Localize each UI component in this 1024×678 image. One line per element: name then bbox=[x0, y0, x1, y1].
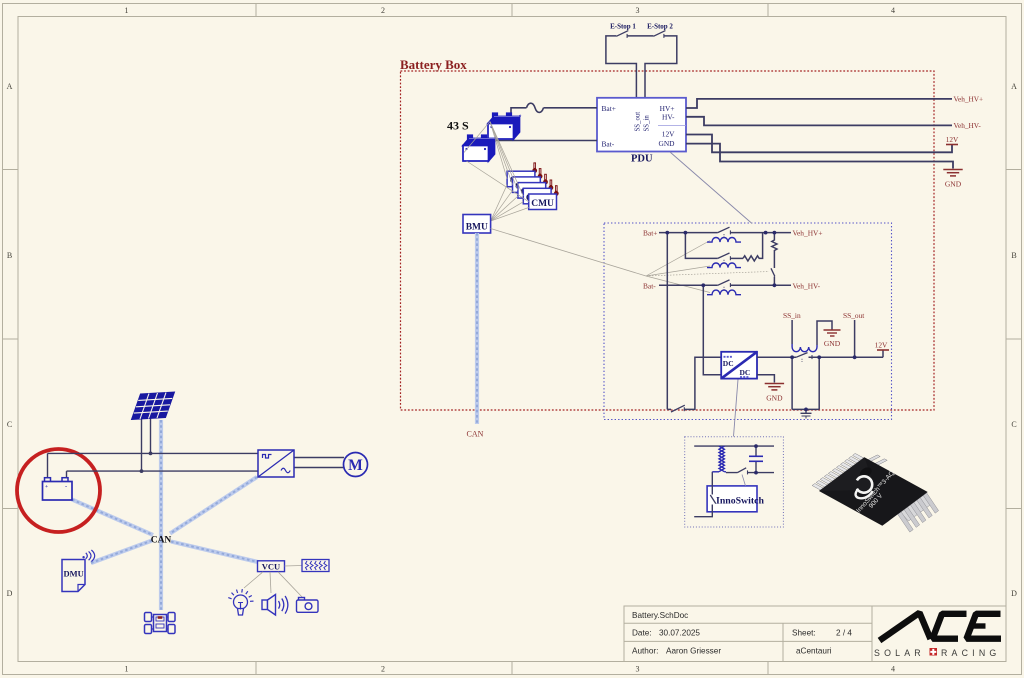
svg-text:B: B bbox=[1011, 251, 1016, 260]
svg-text:SOLAR: SOLAR bbox=[874, 648, 925, 658]
svg-text:Veh_HV-: Veh_HV- bbox=[954, 121, 982, 130]
svg-text:DC: DC bbox=[740, 368, 751, 377]
svg-text:GND: GND bbox=[824, 339, 841, 348]
svg-text:E-Stop 2: E-Stop 2 bbox=[647, 23, 673, 31]
svg-text:1: 1 bbox=[125, 665, 129, 674]
svg-text:A: A bbox=[7, 82, 13, 91]
svg-text:Aaron Griesser: Aaron Griesser bbox=[666, 647, 721, 656]
svg-text:D: D bbox=[1011, 589, 1017, 598]
svg-text:30.07.2025: 30.07.2025 bbox=[659, 629, 700, 638]
svg-text:E-Stop 1: E-Stop 1 bbox=[610, 23, 636, 31]
svg-text:+: + bbox=[45, 484, 48, 490]
svg-text:SS_out: SS_out bbox=[843, 311, 865, 320]
svg-text:12V: 12V bbox=[662, 130, 675, 139]
svg-text:DC: DC bbox=[723, 359, 734, 368]
svg-text:VCU: VCU bbox=[262, 562, 280, 572]
svg-text:DMU: DMU bbox=[64, 569, 84, 579]
svg-text:43 S: 43 S bbox=[447, 119, 469, 133]
svg-text:-: - bbox=[65, 483, 67, 490]
svg-text:GND: GND bbox=[658, 139, 675, 148]
svg-text:D: D bbox=[7, 589, 13, 598]
svg-text:CAN: CAN bbox=[467, 430, 484, 439]
svg-text:Bat-: Bat- bbox=[643, 281, 656, 290]
svg-text:2: 2 bbox=[381, 6, 385, 15]
svg-text:PDU: PDU bbox=[631, 154, 653, 165]
svg-text:2: 2 bbox=[381, 665, 385, 674]
svg-text:C: C bbox=[7, 420, 12, 429]
svg-text:aCentauri: aCentauri bbox=[796, 647, 832, 656]
svg-text:4: 4 bbox=[891, 6, 895, 15]
svg-text:3: 3 bbox=[636, 6, 640, 15]
svg-text:CAN: CAN bbox=[151, 536, 172, 546]
svg-text:M: M bbox=[348, 457, 363, 474]
svg-text:Bat-: Bat- bbox=[602, 140, 615, 149]
svg-text:4: 4 bbox=[891, 665, 895, 674]
svg-text:A: A bbox=[1011, 82, 1017, 91]
svg-text:SS_in: SS_in bbox=[783, 311, 801, 320]
svg-text:Battery Box: Battery Box bbox=[400, 57, 467, 72]
svg-text:Battery.SchDoc: Battery.SchDoc bbox=[632, 611, 688, 620]
svg-text:3: 3 bbox=[636, 665, 640, 674]
svg-text:HV-: HV- bbox=[662, 113, 675, 122]
svg-text:Bat+: Bat+ bbox=[643, 229, 657, 238]
svg-text:SS_out: SS_out bbox=[635, 112, 642, 132]
svg-text:GND: GND bbox=[945, 180, 962, 189]
svg-text:Sheet:: Sheet: bbox=[792, 629, 816, 638]
svg-text:Veh_HV+: Veh_HV+ bbox=[954, 94, 984, 103]
svg-text:Veh_HV+: Veh_HV+ bbox=[793, 229, 823, 238]
svg-text:Bat+: Bat+ bbox=[602, 104, 616, 113]
svg-text:1: 1 bbox=[125, 6, 129, 15]
svg-text:BMU: BMU bbox=[466, 223, 488, 233]
svg-text:Date:: Date: bbox=[632, 629, 652, 638]
svg-text:CMU: CMU bbox=[531, 199, 554, 209]
svg-text:12V: 12V bbox=[946, 135, 959, 144]
svg-text:2 / 4: 2 / 4 bbox=[836, 629, 852, 638]
svg-text:C: C bbox=[1011, 420, 1016, 429]
svg-text:InnoSwitch: InnoSwitch bbox=[716, 496, 764, 507]
svg-text:B: B bbox=[7, 251, 12, 260]
svg-text:SS_in: SS_in bbox=[644, 115, 651, 132]
svg-text:RACING: RACING bbox=[941, 648, 1000, 658]
svg-text:GND: GND bbox=[766, 394, 783, 403]
svg-text:12V: 12V bbox=[875, 341, 888, 350]
svg-text:Veh_HV-: Veh_HV- bbox=[793, 281, 821, 290]
svg-text:Author:: Author: bbox=[632, 647, 658, 656]
